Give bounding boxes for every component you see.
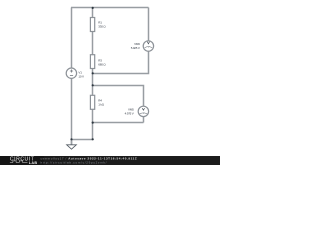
svg-text:http://circuitlab.com/c/29py2z: http://circuitlab.com/c/29py2zmk/ <box>41 161 108 165</box>
wire left branch lower (V1 bottom lead) <box>71 78 73 144</box>
node B (R4 top / VM5 tap) <box>92 84 94 86</box>
node C (VM5 return) <box>92 122 94 124</box>
node E (ground junction) <box>70 138 72 140</box>
svg-text:680 Ω: 680 Ω <box>98 63 106 67</box>
ground <box>67 140 77 150</box>
CircuitLab logo <box>10 156 38 165</box>
svg-text:4.975 V: 4.975 V <box>125 111 134 115</box>
svg-text:1 kΩ: 1 kΩ <box>98 102 104 106</box>
node D (R4 bottom to return) <box>92 138 94 140</box>
resistor R4 <box>90 95 104 109</box>
voltmeter VM5 <box>125 106 149 116</box>
wire VM5 bottom lead <box>143 117 145 123</box>
wire node B to VM5 top <box>93 86 144 107</box>
wire bottom return <box>71 139 93 141</box>
svg-text:LAB: LAB <box>29 161 38 165</box>
wire top rail <box>71 7 149 9</box>
resistor R3 <box>90 55 106 69</box>
node junction top (R1 branch to top rail) <box>92 7 94 9</box>
wire between R1 and R3 <box>92 32 94 55</box>
wire VM6 top lead <box>148 8 150 41</box>
wire main branch R1 top lead <box>92 8 94 18</box>
wire node A to VM6 bottom <box>93 51 149 73</box>
watermark bar <box>0 156 220 165</box>
svg-text:330 Ω: 330 Ω <box>98 25 106 29</box>
watermark text line 1 <box>41 156 138 164</box>
wire below R4 <box>92 109 94 139</box>
wire left branch upper (V1 top lead) <box>71 8 73 69</box>
voltmeter VM6 <box>131 41 154 51</box>
wire between R3 and R4 <box>92 69 94 96</box>
wire VM5 return to node C <box>93 122 144 124</box>
resistor R1 <box>90 18 106 32</box>
voltage source V1 <box>66 68 84 79</box>
svg-text:10 V: 10 V <box>78 75 84 79</box>
node A (R3 bottom / VM6 tap) <box>92 72 94 74</box>
svg-text:5.025 V: 5.025 V <box>131 46 140 50</box>
